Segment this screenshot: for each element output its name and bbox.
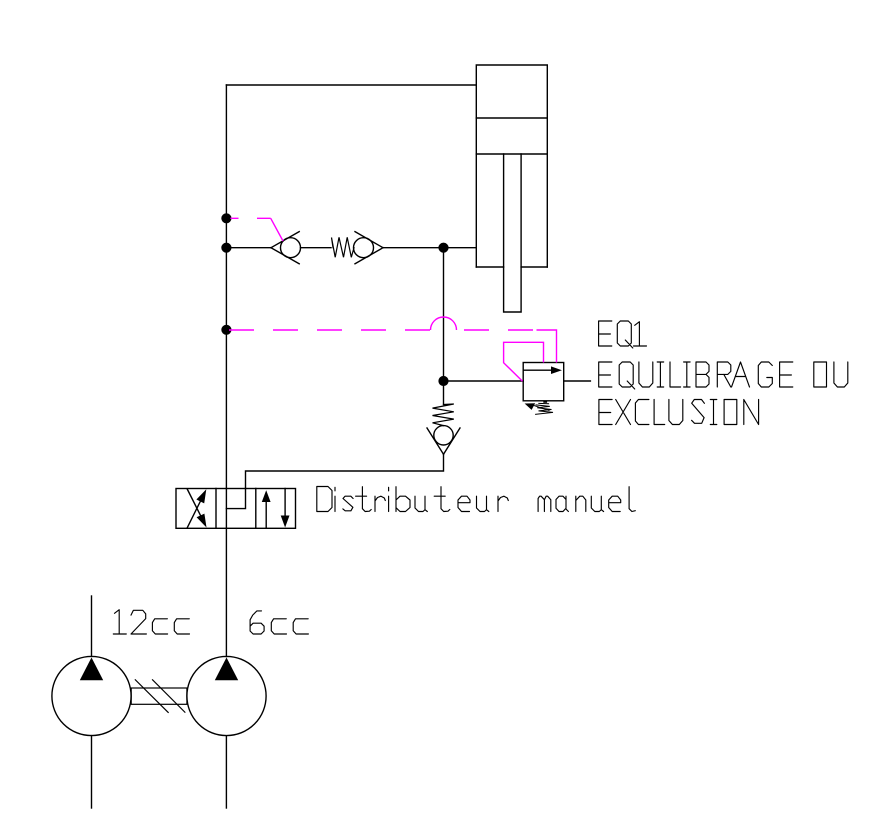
pump P2 flow triangle: [215, 658, 238, 681]
wire: left bus through distributor down to 6cc pump: [225, 528, 227, 656]
distributor centre position: bus passthrough and port link: [226, 489, 245, 529]
node: junction rod line / drop to EQ1: [439, 243, 448, 252]
node: junction bus / pilot upper: [222, 214, 231, 223]
wire: top cap line from left bus to cylinder: [226, 84, 476, 86]
check valve CV3 (vertical): [427, 426, 460, 455]
wire: EQ1 valve outlet stub: [564, 380, 591, 382]
counterbalance valve EQ1 body: [523, 363, 564, 401]
node: junction bus / dashed pilot: [222, 325, 231, 334]
magenta pilot: upper dashes and diagonal to CV1: [230, 218, 283, 241]
distributor right position: straight arrows: [262, 489, 290, 528]
spring above check valve CV3: [433, 404, 454, 426]
label EQUILIBRAGE OU: [599, 362, 848, 389]
node: junction at EQ1 inlet: [439, 377, 448, 386]
wire: between check valves: [301, 247, 332, 249]
shaft coupling between pumps: [131, 680, 187, 713]
label 12cc: [113, 610, 189, 634]
magenta pilot loop on EQ1: [504, 342, 544, 381]
wire: right check valve to cylinder: [383, 247, 476, 249]
pump P1 12cc suction stub: [91, 596, 93, 656]
wire: 6cc pump outlet below: [225, 736, 227, 808]
label EXCLUSION: [599, 400, 759, 425]
wire: junction to EQ1 valve inlet: [444, 380, 524, 382]
pump P1 outlet below: [91, 736, 93, 808]
wire: CV3 outlet down, left, into distributor port: [246, 454, 444, 488]
cylinder C1 body: [476, 65, 547, 267]
cylinder piston rod: [504, 154, 521, 312]
label EQ1: [599, 321, 647, 348]
EQ1 internal flow arrow: [523, 366, 562, 374]
pump P1 flow triangle: [80, 658, 103, 681]
pump P1 12cc circle: [52, 656, 131, 735]
label 6cc: [250, 611, 308, 634]
node: junction bus / rod line: [222, 243, 231, 252]
check valve CV1 (pilot operated, left): [271, 232, 301, 264]
distributor left position: crossed arrows: [187, 489, 206, 528]
EQ1 adjustable spring below: [525, 401, 553, 414]
spring between check valves: [332, 237, 355, 257]
wire: left vertical bus: [225, 85, 227, 489]
pump P2 6cc circle: [187, 656, 266, 735]
distributor valve body (3 position): [176, 489, 296, 529]
label Distributeur manuel: [317, 487, 636, 512]
wire: vertical drop from rod line to check valve CV3: [443, 248, 445, 405]
magenta dashed pilot line with hop: [229, 317, 557, 362]
check valve CV2 (right): [354, 232, 384, 264]
wire: rod-side line from bus to check valve: [226, 247, 271, 249]
